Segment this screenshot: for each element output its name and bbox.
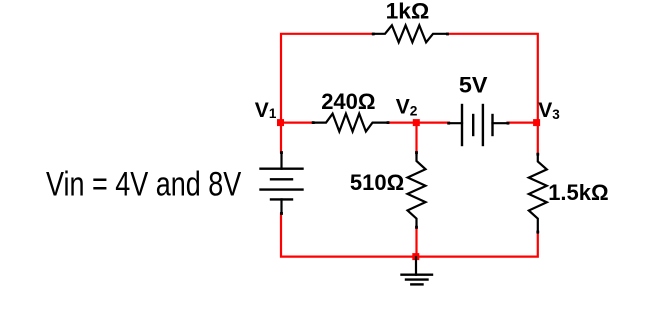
svg-text:V1: V1 xyxy=(255,99,277,122)
svg-text:1.5kΩ: 1.5kΩ xyxy=(548,180,608,205)
svg-text:V3: V3 xyxy=(538,99,560,122)
wire: bottom U (left rail lower, bottom rail, right rail lower) xyxy=(281,214,538,257)
svg-text:V2: V2 xyxy=(396,95,418,118)
svg-text:1kΩ: 1kΩ xyxy=(386,0,430,23)
resistor R1 1kOhm (top, horizontal) xyxy=(372,25,449,42)
wire: middle stub V1 to 240 ohm left lead xyxy=(281,121,314,123)
wire: V2 branch down to 510 ohm xyxy=(415,123,417,155)
svg-text:240Ω: 240Ω xyxy=(321,89,375,114)
wire: top rail right segment + right rail down to 1.5k resistor xyxy=(447,34,538,154)
node V1 junction dot xyxy=(277,119,284,126)
resistor R4 1.5kOhm (vertical, right rail) xyxy=(529,153,547,234)
node V2 junction dot xyxy=(413,119,420,126)
wire: 510 ohm bottom to ground node xyxy=(415,228,417,257)
svg-text:Vin = 4V and 8V: Vin = 4V and 8V xyxy=(46,166,242,204)
node V3 junction dot xyxy=(533,119,540,126)
svg-text:5V: 5V xyxy=(459,72,488,97)
resistor R3 510Ohm (vertical, V2 branch) xyxy=(408,151,426,228)
resistor R2 240Ohm (middle, horizontal) xyxy=(312,114,390,132)
wire: middle segment 5V battery to V3 xyxy=(508,121,538,123)
svg-text:510Ω: 510Ω xyxy=(350,170,404,195)
wire: top-left corner + left rail upper (V1 rail) xyxy=(281,34,374,153)
wire: middle segment 240 ohm to V2 to 5V battery xyxy=(388,121,450,123)
node ground junction dot xyxy=(412,253,419,260)
battery V5 5V (horizontal, between V2 and V3) xyxy=(447,105,509,145)
ground symbol xyxy=(402,257,433,284)
battery Vin source (vertical, left rail) xyxy=(261,151,303,215)
